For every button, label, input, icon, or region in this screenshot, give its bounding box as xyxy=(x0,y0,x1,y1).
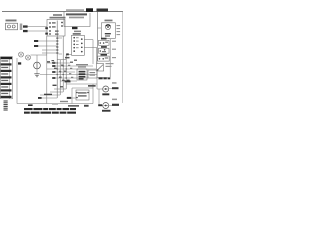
timer motor outer box xyxy=(72,84,93,104)
capacitor C1 circle xyxy=(34,62,41,69)
valve terminal marks xyxy=(105,33,111,34)
wire C1 top stem xyxy=(36,55,38,62)
indicator lamp DS1 xyxy=(19,52,24,57)
label below M1 xyxy=(102,93,109,95)
harness wire y41 xyxy=(35,40,57,42)
power cord plug P1 xyxy=(6,23,18,30)
wire right drop x110 xyxy=(109,39,111,78)
harness wire y66 xyxy=(52,65,93,67)
harness wire y53 xyxy=(42,52,57,54)
power cord plug P1 label xyxy=(6,20,17,22)
wire top of timer motor box xyxy=(66,83,97,85)
bus ticks xyxy=(56,38,58,54)
wire M2 right stub xyxy=(109,104,113,106)
bus vertical B xyxy=(46,36,48,55)
indicator lamp DS2 xyxy=(26,55,31,60)
vertical x93 xyxy=(92,40,94,64)
S3 contacts xyxy=(100,50,102,52)
main bus vertical A xyxy=(56,21,58,99)
label below M2 xyxy=(102,110,111,112)
label motor heading dashes xyxy=(99,77,111,79)
left connector blobs on harness rows xyxy=(52,62,55,79)
pressure switch S3 box xyxy=(99,48,110,53)
wire W neutral to switch xyxy=(23,30,47,32)
label above S4 xyxy=(101,54,108,56)
wire BK line to switch xyxy=(23,26,47,28)
junction dots xyxy=(57,62,67,78)
terminal block on S1 left edge xyxy=(45,27,48,29)
wire MC left bottom xyxy=(66,54,71,56)
wire to valve xyxy=(98,27,102,29)
pump motor M2 xyxy=(103,103,109,109)
extra wire code ticks xyxy=(47,60,65,87)
label right of M1 xyxy=(112,87,119,89)
wire MC right y40 xyxy=(84,39,93,41)
label pressure switch heading xyxy=(76,64,88,68)
note text row 2 xyxy=(24,112,76,114)
timer block T1 xyxy=(77,69,87,80)
drive motor M1 xyxy=(103,86,109,92)
MC left terminals xyxy=(73,37,82,53)
TM text rows xyxy=(78,92,87,93)
lid switch S5 box lower right xyxy=(97,64,104,71)
plug blades xyxy=(20,24,22,31)
label valve side text xyxy=(117,25,121,35)
water valve V1 box xyxy=(101,23,115,39)
label CONNECTION DIAGRAM xyxy=(66,13,87,15)
staircase wire 3 xyxy=(40,94,60,96)
staircase wire 4 xyxy=(38,97,57,99)
S2 contacts xyxy=(100,42,102,44)
label right of S5 xyxy=(106,63,114,67)
connector on staircase wire 4 xyxy=(38,97,42,99)
harness wire y46 xyxy=(35,45,57,47)
connector blob MC bottom wire xyxy=(66,53,69,55)
temp switch S2 box xyxy=(99,40,110,45)
timer motor TM box xyxy=(76,90,89,100)
harness wire y63 xyxy=(47,62,70,64)
bus vertical E xyxy=(65,55,67,90)
label above S2 xyxy=(101,38,107,40)
connector blob on TM wire xyxy=(67,97,71,99)
wire bottom left stub xyxy=(52,104,58,106)
label above line xyxy=(60,101,68,102)
harness wire y81 xyxy=(60,80,77,82)
vertical x96.5 xyxy=(96,47,98,63)
wire lamps to bus xyxy=(31,54,47,56)
label above-right of M1 xyxy=(112,82,117,84)
lid switch S1 box xyxy=(47,20,65,37)
label right of switch stack xyxy=(112,41,116,59)
small text under L1 xyxy=(74,31,81,32)
label above-right of M2 xyxy=(112,99,117,101)
legend table of wire codes xyxy=(1,57,13,99)
ground symbol xyxy=(34,74,39,77)
connection diagram inset box xyxy=(64,12,90,27)
label under line xyxy=(68,105,79,107)
harness wire y72 xyxy=(52,71,75,73)
bottom inset line xyxy=(17,103,93,105)
label motor block xyxy=(73,33,81,35)
label right of TM xyxy=(88,85,96,87)
console inset box xyxy=(17,55,47,104)
connector blob on W wire xyxy=(23,30,28,32)
T1 dark text fill rows xyxy=(79,71,86,80)
wire L1 top rail xyxy=(2,11,123,13)
staircase wire 2 xyxy=(50,91,63,93)
harness wire y50 xyxy=(42,49,57,51)
wire ground row xyxy=(40,74,97,76)
label right of M2 xyxy=(112,104,119,106)
bus vertical C xyxy=(62,36,64,92)
wire code labels on harness xyxy=(59,60,77,81)
node title header text xyxy=(66,9,84,11)
connector blob on BK wire xyxy=(23,25,28,27)
node part number block xyxy=(86,8,93,12)
wire right bus drop from rail xyxy=(97,12,99,62)
S4 contacts xyxy=(99,58,101,60)
bus vertical D xyxy=(59,60,61,95)
label on staircase wire 3 xyxy=(44,94,52,95)
connector on y41 xyxy=(34,40,38,42)
TM terminals xyxy=(76,92,78,94)
MC tiny labels xyxy=(76,37,79,48)
harness wire y69 xyxy=(47,68,96,70)
wire into TM xyxy=(66,97,76,99)
wire C1 to ground xyxy=(36,69,38,74)
label above S3 xyxy=(101,46,107,48)
motor connector block MC xyxy=(72,35,85,55)
label small dash left xyxy=(28,104,33,106)
label lid switch (two rows) xyxy=(53,14,62,16)
selector switch S4 box xyxy=(98,56,110,61)
wire drop to motors xyxy=(97,78,103,106)
wire right border xyxy=(122,12,124,104)
wire S5 to motor row xyxy=(97,61,110,77)
label K xyxy=(18,62,21,64)
connector dash into M2 wire xyxy=(98,104,102,106)
aux block T2 xyxy=(88,70,97,78)
label below MC left xyxy=(65,57,70,59)
S5 switch blade xyxy=(97,65,103,70)
stub wires right of bus xyxy=(59,38,63,54)
harness wire y59 xyxy=(57,59,66,61)
connector on y46 xyxy=(34,45,38,47)
label BU wire xyxy=(65,80,71,82)
wire M1 right stub xyxy=(109,88,112,90)
label water valve xyxy=(105,20,113,22)
terminal L1 label under inset xyxy=(72,27,78,29)
wire MC right y47 xyxy=(84,46,96,48)
water valve solenoid symbol xyxy=(106,25,111,30)
harness wire y78 xyxy=(53,77,89,79)
staircase wire 1 xyxy=(54,88,66,90)
node sheet code TAFB xyxy=(97,9,109,12)
vertical part number under table xyxy=(4,101,8,111)
terminals inside S1 xyxy=(49,22,63,35)
note text row 1 xyxy=(24,108,76,110)
